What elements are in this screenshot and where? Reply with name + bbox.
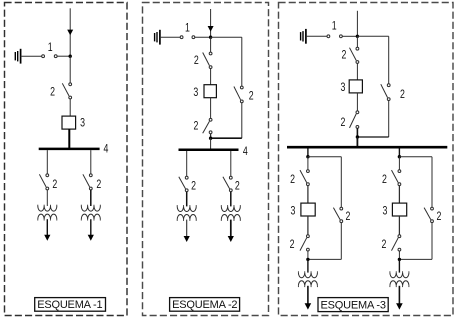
svg-text:2: 2 [290,174,295,186]
svg-text:2: 2 [52,179,57,191]
svg-text:3: 3 [290,205,295,217]
svg-text:2: 2 [400,89,405,101]
svg-text:ESQUEMA -2: ESQUEMA -2 [172,299,237,311]
svg-text:2: 2 [341,117,346,129]
svg-text:3: 3 [341,82,346,94]
svg-text:2: 2 [193,120,198,132]
svg-text:1: 1 [185,23,190,35]
svg-text:2: 2 [345,211,350,223]
svg-text:2: 2 [341,49,346,61]
svg-text:1: 1 [332,21,337,33]
svg-text:ESQUEMA -3: ESQUEMA -3 [321,299,386,311]
svg-text:3: 3 [80,118,85,130]
svg-text:2: 2 [96,179,101,191]
svg-text:2: 2 [50,86,55,98]
svg-text:2: 2 [249,91,254,103]
svg-text:ESQUEMA -1: ESQUEMA -1 [37,299,102,311]
svg-text:2: 2 [382,174,387,186]
svg-text:2: 2 [290,239,295,251]
svg-text:2: 2 [235,180,240,192]
svg-text:2: 2 [382,239,387,251]
svg-text:3: 3 [383,205,388,217]
svg-text:1: 1 [48,42,53,54]
svg-text:2: 2 [191,180,196,192]
svg-text:3: 3 [193,87,198,99]
svg-text:4: 4 [243,146,248,158]
svg-text:2: 2 [194,55,199,67]
svg-text:2: 2 [436,211,441,223]
svg-text:4: 4 [104,144,109,156]
